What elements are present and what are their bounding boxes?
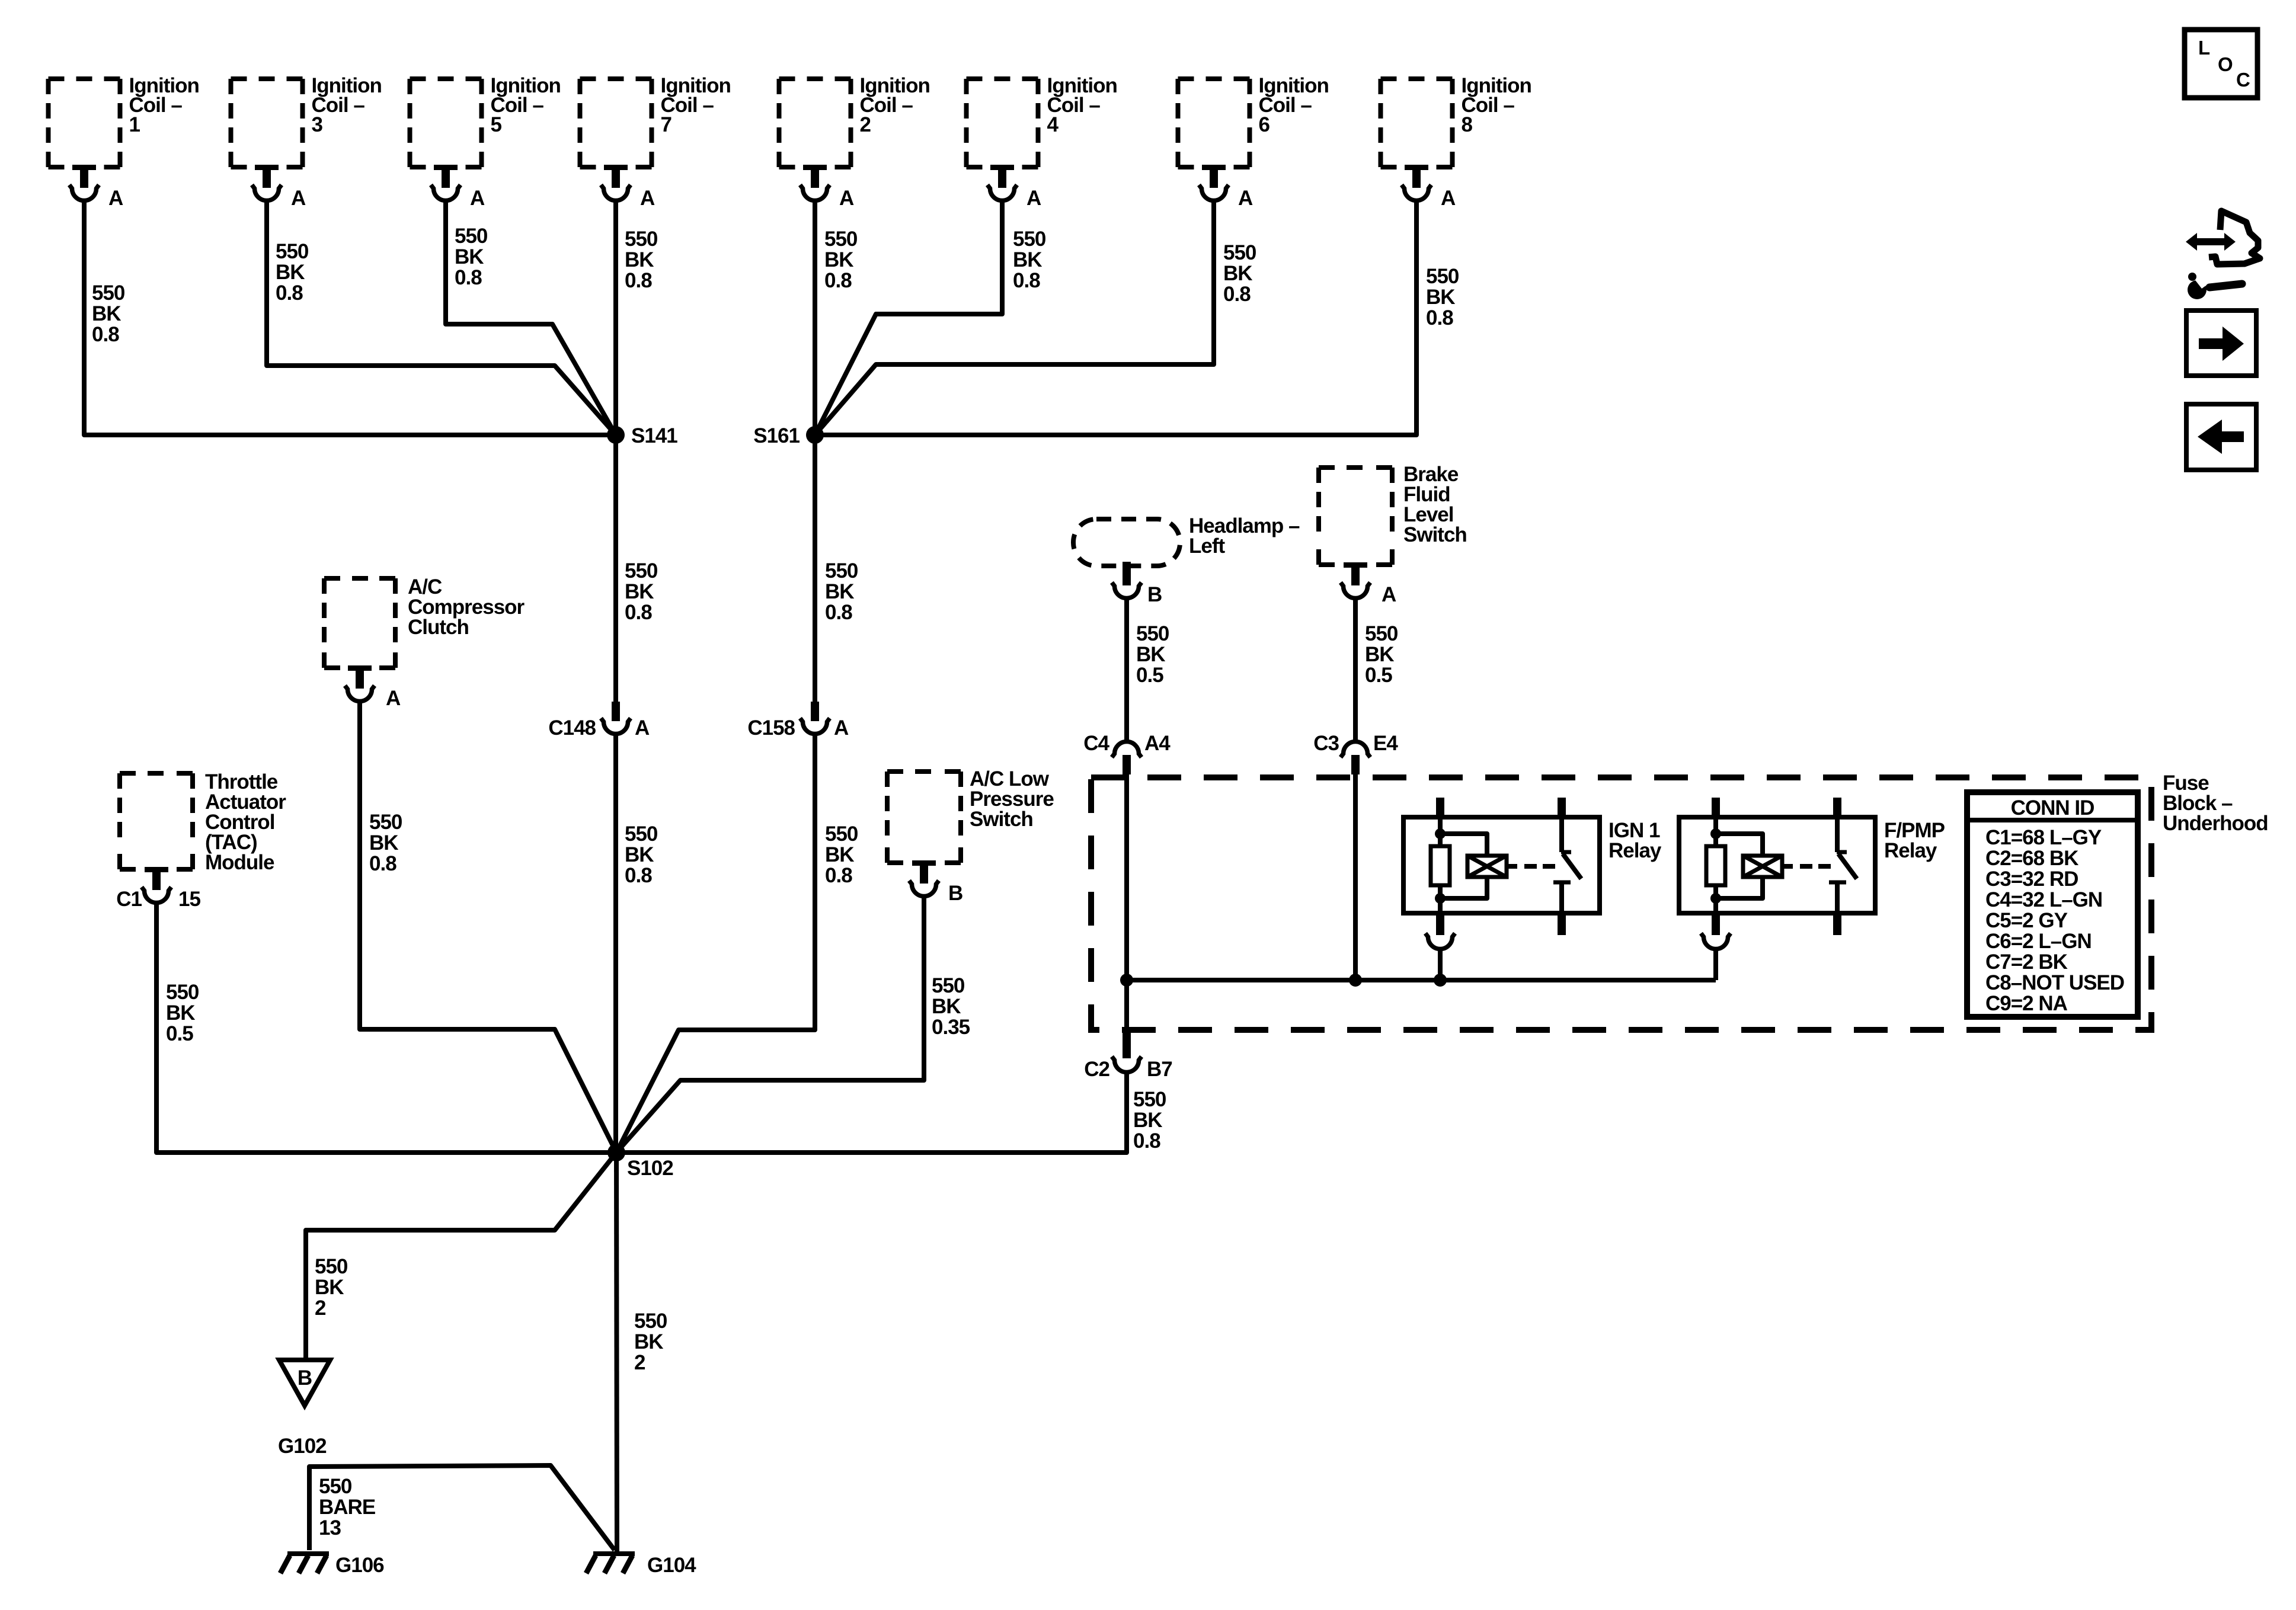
connector C3 pin E4 — [1341, 742, 1370, 775]
svg-text:BK: BK — [825, 580, 854, 603]
svg-text:BK: BK — [1013, 248, 1042, 271]
ground G106 — [280, 1551, 329, 1573]
svg-text:0.8: 0.8 — [455, 266, 482, 289]
svg-text:C1=68 L–GY: C1=68 L–GY — [1985, 826, 2102, 849]
svg-text:550: 550 — [319, 1475, 352, 1498]
svg-text:C2=68 BK: C2=68 BK — [1985, 847, 2078, 870]
svg-text:A: A — [1441, 187, 1456, 210]
svg-text:BK: BK — [166, 1001, 195, 1025]
pin label A (coil 8) — [1441, 187, 1456, 210]
svg-text:BK: BK — [1426, 286, 1455, 309]
svg-text:6: 6 — [1259, 113, 1270, 136]
wire label 550 BK 2 (G104 branch) — [634, 1310, 667, 1374]
svg-text:Switch: Switch — [1403, 523, 1467, 546]
junction dot (headlamp bus) — [1120, 974, 1133, 987]
svg-text:A: A — [839, 187, 854, 210]
A/C compressor clutch label — [408, 575, 525, 639]
splice S161 — [806, 426, 824, 444]
pin label 15 — [178, 888, 200, 911]
wire label 550 BK 0.8 (coil 4) — [1013, 228, 1046, 292]
svg-text:BK: BK — [634, 1330, 663, 1353]
ignition coil 1 label — [129, 74, 199, 136]
svg-text:0.8: 0.8 — [625, 864, 652, 887]
fuse block underhood (dashed box) — [1091, 777, 2151, 1030]
internal ground bus wire — [1127, 978, 1716, 982]
wire C4 into fuse block to internal bus — [1124, 773, 1129, 1030]
svg-text:550: 550 — [1223, 241, 1256, 264]
svg-text:5: 5 — [491, 113, 502, 136]
connector label C3 — [1313, 732, 1339, 755]
svg-text:550: 550 — [92, 281, 125, 305]
wire label 550 BK 0.8 (coil 2) — [824, 228, 858, 292]
svg-text:550: 550 — [824, 228, 858, 251]
ignition coil 2 label — [860, 74, 930, 136]
svg-text:550: 550 — [1365, 622, 1398, 645]
svg-text:550: 550 — [455, 225, 488, 248]
svg-text:0.5: 0.5 — [166, 1022, 193, 1045]
ignition coil 2 (dashed box) — [779, 79, 851, 167]
wire label 550 BK 0.8 (S141 to C148) — [625, 559, 658, 624]
svg-text:B: B — [298, 1366, 312, 1390]
svg-text:A: A — [1238, 187, 1253, 210]
svg-text:C7=2 BK: C7=2 BK — [1985, 950, 2068, 974]
headlamp connector pin B — [1112, 562, 1141, 598]
wire coil 8 to S161 — [815, 201, 1416, 435]
svg-text:CONN ID: CONN ID — [2011, 796, 2094, 820]
relay F/PMP — [1679, 798, 1875, 980]
svg-text:1: 1 — [129, 113, 140, 136]
wire C148 to S102 — [613, 735, 618, 1153]
junction dot (brake fluid bus) — [1349, 974, 1362, 987]
svg-text:BK: BK — [932, 995, 961, 1018]
svg-text:B: B — [1147, 583, 1162, 606]
svg-text:C3: C3 — [1313, 732, 1339, 755]
svg-text:S102: S102 — [627, 1157, 673, 1180]
svg-text:A: A — [291, 187, 306, 210]
ignition coil 7 label — [661, 74, 731, 136]
pin label A4 — [1144, 732, 1171, 755]
splice label S102 — [627, 1157, 673, 1180]
wire label 550 BK 0.5 (brake fluid) — [1365, 622, 1398, 687]
ground G104 — [586, 1551, 635, 1573]
pin label A (C148) — [635, 716, 650, 740]
svg-text:0.35: 0.35 — [932, 1016, 970, 1039]
svg-text:0.8: 0.8 — [625, 601, 652, 624]
svg-text:L: L — [2198, 37, 2210, 59]
wire C158 to S102 — [616, 735, 815, 1153]
wire coil 3 to S141 — [267, 201, 616, 435]
svg-text:C3=32 RD: C3=32 RD — [1985, 868, 2078, 891]
wire label 550 BK 0.35 — [932, 974, 970, 1039]
brake fluid level switch label — [1403, 463, 1467, 546]
ignition coil 6 label — [1259, 74, 1329, 136]
svg-text:A: A — [108, 187, 123, 210]
wire label 550 BK 0.8 (coil 6) — [1223, 241, 1256, 306]
A/C compressor clutch connector pin A — [345, 665, 375, 702]
svg-text:C158: C158 — [747, 716, 795, 740]
TAC connector C1 pin 15 — [142, 867, 171, 902]
svg-text:BARE: BARE — [319, 1496, 375, 1519]
svg-text:BK: BK — [625, 843, 654, 866]
wire coil 2 to C158 (through S161) — [813, 201, 817, 702]
svg-text:E4: E4 — [1373, 732, 1398, 755]
svg-text:550: 550 — [634, 1310, 667, 1333]
ignition coil 1 (dashed box) — [49, 79, 120, 167]
headlamp left label — [1189, 514, 1300, 558]
connector label C158 — [747, 716, 795, 740]
ignition coil 6 connector pin A — [1199, 165, 1229, 201]
svg-text:C: C — [2236, 69, 2250, 91]
connector C148 — [601, 702, 631, 734]
svg-text:BK: BK — [1365, 643, 1394, 666]
ignition coil 3 label — [312, 74, 382, 136]
headlamp left (dashed outline) — [1073, 519, 1180, 566]
wire coil 5 to S141 — [446, 201, 616, 435]
pin label A (A/C compressor) — [386, 687, 401, 710]
forward arrow box — [2186, 311, 2256, 376]
svg-text:2: 2 — [634, 1351, 645, 1374]
connector C4 pin A4 — [1112, 742, 1141, 775]
svg-text:BK: BK — [315, 1276, 344, 1299]
pin label B (A/C low pressure) — [948, 882, 962, 905]
svg-text:A: A — [1382, 583, 1396, 606]
svg-text:550: 550 — [1133, 1088, 1166, 1111]
svg-text:8: 8 — [1462, 113, 1473, 136]
svg-text:B: B — [948, 882, 962, 905]
pin label A (coil 4) — [1027, 187, 1041, 210]
ignition coil 3 (dashed box) — [231, 79, 303, 167]
svg-text:0.8: 0.8 — [825, 864, 852, 887]
wire label 550 BK 0.5 (TAC) — [166, 981, 199, 1045]
wire label 550 BK 0.8 (coil 7) — [625, 228, 658, 292]
svg-text:A: A — [1027, 187, 1041, 210]
svg-text:3: 3 — [312, 113, 323, 136]
wire A/C compressor clutch to S102 — [360, 702, 616, 1153]
wire A/C low pressure switch to S102 — [616, 897, 924, 1153]
svg-text:C4: C4 — [1083, 732, 1109, 755]
svg-text:2: 2 — [315, 1297, 326, 1320]
wire label 550 BK 2 (G102 branch) — [315, 1255, 348, 1320]
svg-text:0.8: 0.8 — [824, 269, 852, 292]
ground label G104 — [647, 1554, 696, 1577]
svg-text:BK: BK — [276, 261, 305, 284]
fuse block label — [2163, 772, 2268, 835]
diagnostic icon (arrows and wrench) — [2186, 211, 2260, 299]
svg-text:7: 7 — [661, 113, 671, 136]
junction dot (IGN 1 relay bus) — [1434, 974, 1447, 987]
svg-text:A: A — [640, 187, 655, 210]
ignition coil 1 connector pin A — [69, 165, 99, 201]
svg-text:550: 550 — [1013, 228, 1046, 251]
svg-text:550: 550 — [369, 811, 402, 834]
svg-text:BK: BK — [1133, 1109, 1162, 1132]
svg-text:C6=2 L–GN: C6=2 L–GN — [1985, 930, 2092, 953]
ground G102 terminal B (triangle) — [279, 1360, 330, 1406]
svg-text:BK: BK — [625, 248, 654, 271]
svg-text:BK: BK — [625, 580, 654, 603]
ignition coil 5 (dashed box) — [410, 79, 482, 167]
wire label 550 BK 0.8 (A/C compressor) — [369, 811, 402, 875]
ignition coil 4 connector pin A — [987, 165, 1017, 201]
splice label S161 — [753, 424, 800, 447]
LOC reference box — [2185, 30, 2257, 98]
pin label A (coil 1) — [108, 187, 123, 210]
svg-text:C5=2 GY: C5=2 GY — [1985, 909, 2068, 932]
svg-text:2: 2 — [860, 113, 871, 136]
pin label A (coil 7) — [640, 187, 655, 210]
pin label A (brake fluid switch) — [1382, 583, 1396, 606]
brake fluid switch connector pin A — [1341, 562, 1370, 598]
A/C low pressure switch connector pin B — [909, 860, 939, 897]
ground label G106 — [335, 1554, 384, 1577]
ignition coil 8 (dashed box) — [1381, 79, 1453, 167]
wire G106 to G104 — [309, 1465, 615, 1550]
svg-text:Left: Left — [1189, 534, 1226, 558]
svg-text:Relay: Relay — [1609, 839, 1662, 862]
svg-text:550: 550 — [625, 559, 658, 582]
wire coil 6 to S161 — [815, 201, 1214, 435]
back arrow box — [2186, 404, 2256, 470]
svg-text:G102: G102 — [278, 1435, 327, 1458]
pin label A (C158) — [834, 716, 849, 740]
svg-text:C4=32 L–GN: C4=32 L–GN — [1985, 888, 2102, 911]
svg-text:0.8: 0.8 — [1133, 1129, 1160, 1153]
CONN ID table — [1967, 792, 2138, 1017]
ignition coil 7 (dashed box) — [580, 79, 652, 167]
ignition coil 8 connector pin A — [1402, 165, 1431, 200]
svg-text:C8–NOT USED: C8–NOT USED — [1985, 971, 2124, 994]
svg-text:Relay: Relay — [1884, 839, 1937, 862]
ignition coil 5 label — [491, 74, 561, 136]
pin label E4 — [1373, 732, 1398, 755]
svg-text:G106: G106 — [335, 1554, 384, 1577]
wire label 550 BK 0.8 (coil 3) — [276, 240, 309, 305]
ignition coil 7 connector pin A — [601, 165, 631, 201]
connector C2 pin B7 — [1112, 1030, 1141, 1072]
connector label C148 — [548, 716, 596, 740]
svg-text:C2: C2 — [1084, 1058, 1109, 1081]
svg-text:Module: Module — [205, 851, 274, 874]
wire S102 to G102 — [306, 1153, 616, 1359]
svg-text:0.8: 0.8 — [369, 852, 396, 875]
svg-text:0.8: 0.8 — [825, 601, 852, 624]
svg-text:C1: C1 — [116, 888, 142, 911]
ignition coil 8 label — [1462, 74, 1531, 136]
svg-text:BK: BK — [824, 248, 853, 271]
terminal label B (G102) — [298, 1366, 312, 1390]
svg-text:0.5: 0.5 — [1365, 664, 1392, 687]
wire TAC to S102 — [156, 904, 616, 1153]
svg-text:Clutch: Clutch — [408, 616, 469, 639]
svg-text:C9=2 NA: C9=2 NA — [1985, 992, 2068, 1015]
A/C low pressure switch label — [970, 767, 1054, 831]
svg-text:550: 550 — [1136, 622, 1169, 645]
svg-text:BK: BK — [1223, 262, 1252, 285]
svg-text:0.8: 0.8 — [625, 269, 652, 292]
A/C compressor clutch (dashed box) — [324, 578, 395, 668]
svg-text:C148: C148 — [548, 716, 596, 740]
connector C158 — [800, 702, 830, 734]
svg-text:B7: B7 — [1147, 1058, 1172, 1081]
pin label B7 — [1147, 1058, 1172, 1081]
svg-text:0.8: 0.8 — [92, 323, 119, 346]
pin label B (headlamp) — [1147, 583, 1162, 606]
wire brake fluid switch to C3 — [1353, 599, 1358, 742]
svg-text:BK: BK — [369, 831, 398, 854]
svg-text:0.8: 0.8 — [1223, 283, 1251, 306]
svg-text:A: A — [635, 716, 650, 740]
A/C low pressure switch (dashed box) — [887, 772, 961, 863]
wire label 550 BK 0.8 (C2 to S102) — [1133, 1088, 1166, 1153]
throttle actuator control module (dashed box) — [120, 773, 193, 869]
splice S141 — [607, 426, 625, 444]
wire label 550 BK 0.5 (headlamp) — [1136, 622, 1169, 687]
wire label 550 BK 0.8 (coil 1) — [92, 281, 125, 346]
pin label A (coil 2) — [839, 187, 854, 210]
svg-text:550: 550 — [166, 981, 199, 1004]
svg-text:BK: BK — [825, 843, 854, 866]
svg-text:S161: S161 — [753, 424, 800, 447]
svg-text:550: 550 — [932, 974, 965, 997]
ground label G102 — [278, 1435, 327, 1458]
relay label F/PMP — [1884, 819, 1945, 862]
svg-text:0.8: 0.8 — [276, 281, 303, 305]
svg-text:550: 550 — [625, 822, 658, 846]
svg-text:13: 13 — [319, 1516, 341, 1539]
wire label 550 BK 0.8 (C148 to S102) — [625, 822, 658, 887]
ignition coil 6 (dashed box) — [1178, 79, 1250, 167]
wire label 550 BK 0.8 (coil 5) — [455, 225, 488, 289]
connector label C2 — [1084, 1058, 1109, 1081]
svg-text:Switch: Switch — [970, 808, 1033, 831]
connector label C4 — [1083, 732, 1109, 755]
svg-text:A: A — [470, 187, 485, 210]
svg-text:O: O — [2218, 53, 2233, 75]
svg-text:0.8: 0.8 — [1426, 306, 1453, 329]
pin label A (coil 6) — [1238, 187, 1253, 210]
wire label 550 BK 0.8 (coil 8) — [1426, 265, 1459, 329]
wire C2 to S102 — [616, 1073, 1127, 1153]
splice label S141 — [631, 424, 677, 447]
svg-text:BK: BK — [92, 302, 121, 325]
svg-text:550: 550 — [625, 228, 658, 251]
svg-text:550: 550 — [276, 240, 309, 263]
TAC module label — [205, 770, 286, 874]
svg-text:BK: BK — [455, 245, 484, 268]
svg-text:4: 4 — [1047, 113, 1059, 136]
wire label 550 BARE 13 — [319, 1475, 375, 1539]
ignition coil 5 connector pin A — [431, 165, 461, 201]
wire coil 4 to S161 — [815, 201, 1002, 435]
ignition coil 3 connector pin A — [252, 165, 282, 201]
svg-text:A4: A4 — [1144, 732, 1171, 755]
svg-text:0.8: 0.8 — [1013, 269, 1040, 292]
splice S102 — [607, 1144, 625, 1161]
ignition coil 2 connector pin A — [800, 165, 830, 201]
relay label IGN 1 — [1609, 819, 1662, 862]
wire label 550 BK 0.8 (S161 to C158) — [825, 559, 858, 624]
wire label 550 BK 0.8 (C158 branch) — [825, 822, 858, 887]
svg-text:S141: S141 — [631, 424, 677, 447]
svg-text:A: A — [386, 687, 401, 710]
ignition coil 4 label — [1047, 74, 1117, 136]
svg-text:A: A — [834, 716, 849, 740]
brake fluid level switch (dashed box) — [1319, 468, 1392, 565]
wire coil 1 to S141 — [84, 201, 616, 435]
relay IGN 1 — [1403, 798, 1600, 980]
svg-text:G104: G104 — [647, 1554, 696, 1577]
wire C3 into fuse block to internal bus — [1353, 773, 1358, 980]
svg-text:550: 550 — [825, 822, 858, 846]
pin label A (coil 3) — [291, 187, 306, 210]
pin label A (coil 5) — [470, 187, 485, 210]
svg-text:15: 15 — [178, 888, 200, 911]
svg-text:550: 550 — [1426, 265, 1459, 288]
wire coil 7 to C148 (through S141) — [613, 201, 618, 702]
svg-text:550: 550 — [825, 559, 858, 582]
svg-text:0.5: 0.5 — [1136, 664, 1163, 687]
svg-text:550: 550 — [315, 1255, 348, 1278]
svg-text:Underhood: Underhood — [2163, 812, 2268, 835]
connector label C1 — [116, 888, 142, 911]
wire S102 to G104 — [616, 1153, 617, 1551]
ignition coil 4 (dashed box) — [967, 79, 1038, 167]
wire headlamp to C4 — [1124, 599, 1129, 742]
svg-text:BK: BK — [1136, 643, 1165, 666]
